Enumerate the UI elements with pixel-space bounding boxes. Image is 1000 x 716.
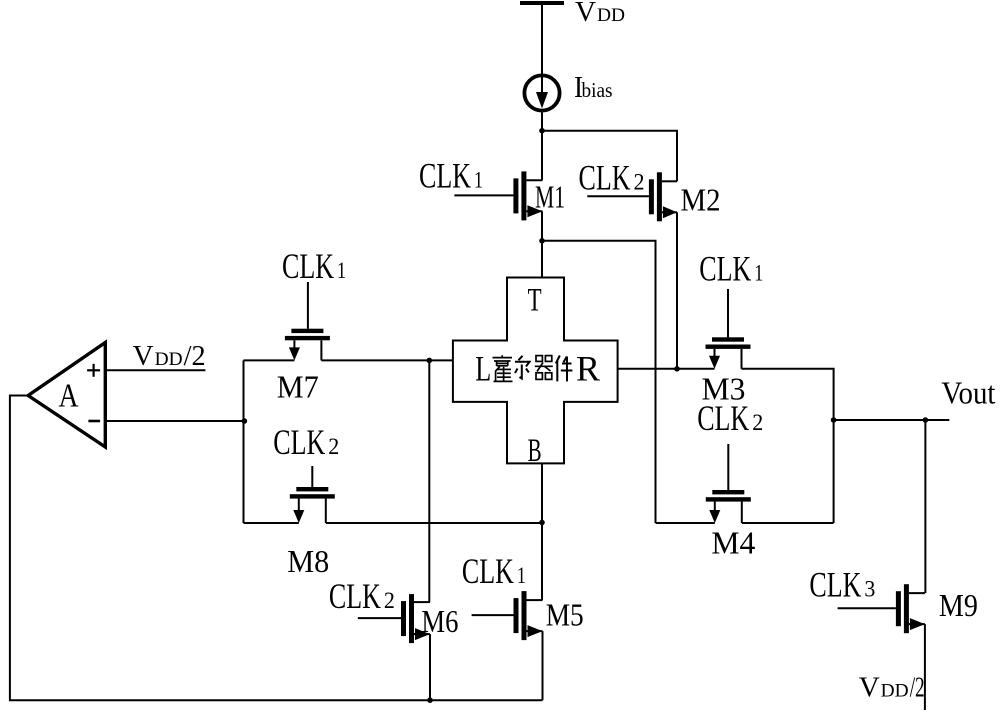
label 件 (Hall char 4) xyxy=(556,356,573,382)
wire M4 bottom right xyxy=(742,522,834,524)
svg-text:M4: M4 xyxy=(711,525,755,561)
svg-text:CLK: CLK xyxy=(809,564,861,604)
node: M8 wire meets Hall-B wire xyxy=(539,520,545,526)
node: Vout branch dot xyxy=(831,417,837,423)
svg-text:CLK: CLK xyxy=(282,246,334,286)
node: M1 source dot xyxy=(539,238,545,244)
svg-text:2: 2 xyxy=(384,588,395,613)
wire M9 source to bottom edge xyxy=(924,624,926,710)
svg-text:2: 2 xyxy=(328,434,339,459)
label 器 (Hall char 3) xyxy=(535,356,553,380)
power rail VDD symbol xyxy=(520,1,564,5)
label CLK1 of M5 xyxy=(462,551,526,591)
wire Hall right to M3 left terminal xyxy=(618,368,715,370)
svg-text:1: 1 xyxy=(474,168,483,193)
node: dot on Hall-left wire xyxy=(427,358,433,364)
svg-text:2: 2 xyxy=(752,410,763,435)
svg-text:M5: M5 xyxy=(546,596,584,632)
node: bias node dot xyxy=(539,128,545,134)
transistor M4 (rotated) xyxy=(706,444,751,523)
label Ibias xyxy=(574,69,613,104)
svg-text:M6: M6 xyxy=(421,603,458,639)
wire bias node down to M1 drain xyxy=(541,131,543,181)
svg-text:1: 1 xyxy=(517,563,526,588)
transistor M2 xyxy=(587,172,677,221)
Hall device cross outline xyxy=(453,278,618,464)
label CLK1 of M7 xyxy=(282,246,346,286)
svg-text:T: T xyxy=(528,283,542,319)
wire M8 bottom left xyxy=(244,522,299,524)
label 霍 (Hall char 1) xyxy=(493,355,513,381)
wire M1 source down to node xyxy=(541,211,543,241)
label CLK2 of M2 xyxy=(579,158,645,198)
current source Ibias xyxy=(524,75,559,110)
node: bottom wire dot at M6 xyxy=(427,697,433,703)
svg-text:DD: DD xyxy=(155,350,183,370)
wire op-amp + input stub xyxy=(105,369,205,371)
svg-text:DD: DD xyxy=(597,6,625,26)
label CLK2 of M6 xyxy=(329,576,395,616)
svg-text:CLK: CLK xyxy=(579,158,631,198)
op-amp A xyxy=(28,343,105,448)
svg-text:1: 1 xyxy=(754,260,763,285)
label VDD/2 at op-amp xyxy=(133,340,206,372)
svg-text:V: V xyxy=(575,0,596,28)
label VDD xyxy=(575,0,625,28)
wire down to M9 drain xyxy=(924,420,926,593)
svg-text:Vout: Vout xyxy=(941,375,995,411)
svg-text:L: L xyxy=(475,349,491,389)
label CLK1 of M1 xyxy=(419,156,483,196)
svg-text:2: 2 xyxy=(634,170,645,195)
op-amp plus sign xyxy=(87,364,100,377)
svg-text:B: B xyxy=(528,433,542,469)
wire node right and down to M4 left xyxy=(542,241,656,523)
svg-text:CLK: CLK xyxy=(697,398,749,438)
wire left rail M7-M8 xyxy=(243,360,245,523)
wire VDD to current source xyxy=(541,5,543,75)
label 尔 (Hall char 2) xyxy=(515,356,530,379)
svg-text:bias: bias xyxy=(582,78,613,102)
transistor M7 (rotated) xyxy=(285,282,330,360)
transistor M9 xyxy=(838,584,925,633)
label CLK2 of M8 xyxy=(273,422,339,462)
label VDD/2 bottom right xyxy=(859,672,925,704)
svg-text:A: A xyxy=(59,378,79,415)
svg-text:M8: M8 xyxy=(287,543,329,579)
wire Hall B down to M5 drain xyxy=(541,463,543,600)
label CLK3 of M9 xyxy=(809,564,875,604)
svg-text:M1: M1 xyxy=(535,179,565,215)
svg-text:/2: /2 xyxy=(184,340,206,372)
svg-text:M2: M2 xyxy=(681,182,721,218)
svg-text:/2: /2 xyxy=(910,672,925,704)
wire M5 source down xyxy=(542,631,544,700)
wire M3 right terminal to right rail xyxy=(742,369,834,523)
label CLK2 of M4 xyxy=(697,398,763,438)
wire op-amp output xyxy=(10,396,543,701)
wire M6 source down xyxy=(429,634,431,700)
svg-text:CLK: CLK xyxy=(419,156,471,196)
wire op-amp - input to left rail xyxy=(105,420,244,422)
svg-text:3: 3 xyxy=(864,576,875,601)
svg-text:M7: M7 xyxy=(277,369,319,405)
svg-text:M9: M9 xyxy=(939,587,978,623)
wire Hall left to M7 xyxy=(321,359,453,361)
wire dot down to M6 drain xyxy=(428,360,430,602)
wire current source to node xyxy=(541,113,543,131)
svg-text:CLK: CLK xyxy=(329,576,381,616)
svg-text:V: V xyxy=(133,340,154,372)
transistor M1 xyxy=(454,171,542,220)
svg-text:CLK: CLK xyxy=(462,551,514,591)
svg-text:R: R xyxy=(576,349,600,389)
svg-text:DD: DD xyxy=(881,682,909,702)
svg-text:V: V xyxy=(859,672,880,704)
op-amp minus sign xyxy=(88,420,100,423)
wire Vout xyxy=(834,419,950,421)
wire node to Hall T xyxy=(541,241,543,278)
svg-text:CLK: CLK xyxy=(699,248,751,288)
wire M2 source down to Hall-right wire xyxy=(676,212,678,368)
transistor M8 (rotated) xyxy=(290,466,335,523)
node: feedback dot xyxy=(242,418,248,424)
transistor M6 xyxy=(358,594,430,643)
node: M2 source to R-wire dot xyxy=(674,366,680,372)
wire M8 bottom right to Hall-B rail xyxy=(326,522,542,524)
node: M9 branch dot xyxy=(923,417,929,423)
transistor M5 xyxy=(472,591,543,640)
wire M4 bottom left xyxy=(656,522,715,524)
wire M7 left xyxy=(244,359,295,361)
wire bias node to M2 drain (top right branch) xyxy=(542,131,677,182)
label CLK1 of M3 xyxy=(699,248,763,288)
transistor M3 (rotated) xyxy=(706,289,751,369)
svg-text:CLK: CLK xyxy=(273,422,325,462)
svg-text:1: 1 xyxy=(337,258,346,283)
